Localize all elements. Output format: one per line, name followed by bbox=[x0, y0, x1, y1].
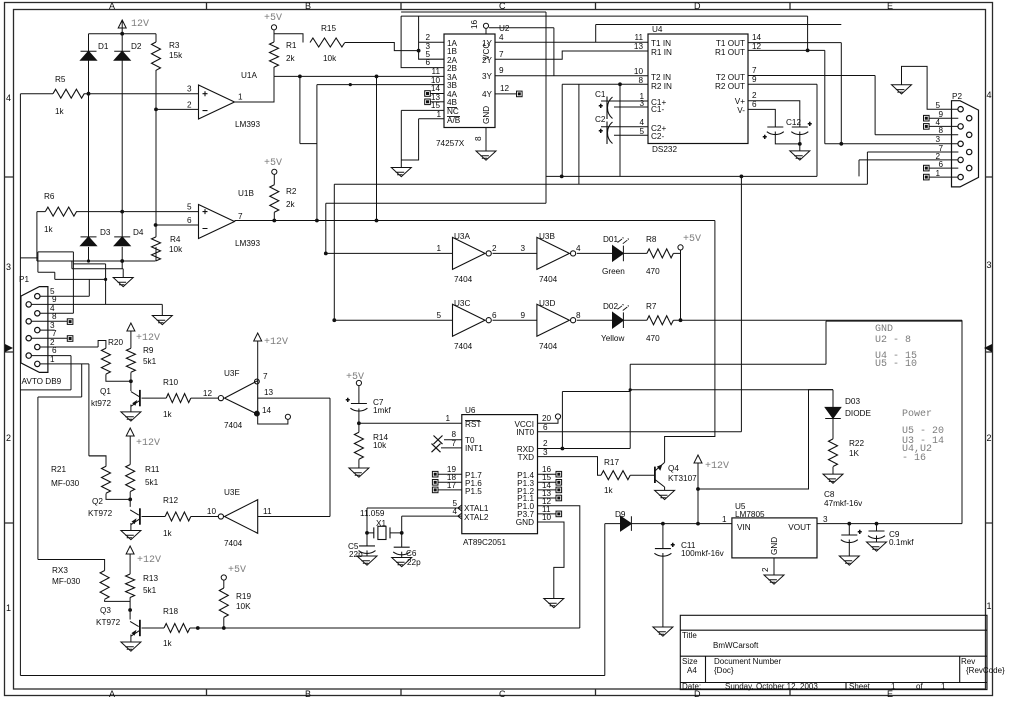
wire INT1 stub bbox=[441, 447, 462, 449]
svg-text:VIN: VIN bbox=[737, 523, 751, 532]
wire U2 pin16 stub bbox=[485, 23, 487, 35]
svg-text:5k1: 5k1 bbox=[143, 586, 157, 595]
svg-text:9: 9 bbox=[52, 295, 57, 304]
wire +12V stem Q1 bbox=[130, 331, 132, 348]
svg-text:R7: R7 bbox=[646, 302, 657, 311]
ground C11 bbox=[653, 627, 673, 636]
svg-text:R1 OUT: R1 OUT bbox=[715, 48, 745, 57]
wire Q4 collector gnd bbox=[664, 487, 666, 490]
+5V terminal R1 bbox=[271, 25, 276, 30]
svg-text:P1.5: P1.5 bbox=[465, 487, 482, 496]
svg-text:D: D bbox=[694, 1, 701, 11]
square U6 P1.1 bbox=[556, 495, 562, 501]
svg-text:C: C bbox=[499, 1, 506, 11]
svg-text:P2: P2 bbox=[952, 92, 962, 101]
resistor R21 bbox=[102, 466, 111, 493]
wire U4 V- to cap bbox=[748, 109, 775, 127]
svg-text:3: 3 bbox=[935, 135, 940, 144]
terminal U2 pin16 bbox=[483, 23, 488, 28]
svg-text:5: 5 bbox=[639, 127, 644, 136]
wire y391.5 line bbox=[562, 392, 630, 449]
wire U3C out to U3D bbox=[493, 319, 537, 321]
wire P1 pin9 gnd drop bbox=[161, 304, 163, 315]
svg-text:Green: Green bbox=[602, 267, 625, 276]
wire U4 R2IN row bbox=[562, 84, 648, 184]
svg-text:NC: NC bbox=[447, 107, 459, 116]
wire U1A pin2 row bbox=[156, 108, 199, 110]
resistor R3 bbox=[152, 42, 161, 70]
svg-text:R21: R21 bbox=[51, 465, 66, 474]
wire U2 pin8 stub bbox=[485, 128, 487, 152]
wire T0 stub bbox=[444, 439, 462, 441]
svg-text:8: 8 bbox=[576, 311, 581, 320]
square U6 P1.7 bbox=[432, 471, 438, 477]
svg-text:A/B: A/B bbox=[447, 116, 461, 125]
wire C9 stem bbox=[876, 524, 878, 542]
svg-text:9: 9 bbox=[752, 75, 757, 84]
svg-text:D9: D9 bbox=[615, 510, 626, 519]
wire D9 row bbox=[605, 523, 732, 525]
capacitor C12 bbox=[791, 127, 808, 135]
wire Q4 emitter route bbox=[665, 221, 715, 463]
svg-text:5: 5 bbox=[436, 311, 441, 320]
+12V arrow top bbox=[118, 20, 126, 28]
svg-text:5k1: 5k1 bbox=[143, 357, 157, 366]
wire Q1 junction row bbox=[106, 348, 131, 391]
svg-text:VCC: VCC bbox=[482, 43, 491, 60]
wire R2 column bbox=[273, 174, 275, 220]
wire Q2 junction bbox=[106, 436, 130, 507]
square P2 pin6 bbox=[924, 165, 930, 171]
wire P1.4-P1.1 stubs bbox=[538, 474, 557, 498]
svg-text:3Y: 3Y bbox=[482, 72, 493, 81]
svg-text:470: 470 bbox=[646, 334, 660, 343]
svg-text:R12: R12 bbox=[163, 496, 178, 505]
svg-text:R11: R11 bbox=[145, 465, 160, 474]
svg-text:R10: R10 bbox=[163, 378, 178, 387]
svg-text:20: 20 bbox=[542, 414, 552, 423]
svg-text:10k: 10k bbox=[323, 54, 337, 63]
wire D02 to R7 bbox=[623, 319, 647, 321]
wire h27.8 stub bbox=[489, 28, 554, 76]
svg-text:+12V: +12V bbox=[136, 333, 160, 344]
wire U4 R2OUT bbox=[748, 84, 817, 176]
wire D9 left drop bbox=[604, 524, 606, 676]
svg-text:GND: GND bbox=[770, 537, 779, 555]
svg-text:U5 - 10: U5 - 10 bbox=[875, 359, 917, 370]
resistor R5 bbox=[53, 89, 84, 98]
svg-text:Yellow: Yellow bbox=[601, 334, 624, 343]
svg-text:12: 12 bbox=[500, 84, 510, 93]
svg-text:8: 8 bbox=[938, 126, 943, 135]
svg-text:9: 9 bbox=[499, 66, 504, 75]
wire U4 C2- stub bbox=[614, 134, 648, 136]
wire P1.0 elbow bbox=[538, 506, 580, 628]
wire riser x376.5 bbox=[376, 76, 378, 220]
svg-text:INT1: INT1 bbox=[465, 444, 483, 453]
resistor R12 bbox=[165, 512, 191, 521]
resistor R9 bbox=[126, 348, 135, 372]
wire Q3 emitter drop bbox=[130, 635, 132, 643]
svg-text:10: 10 bbox=[207, 507, 217, 516]
wire XTAL2 row bbox=[402, 516, 462, 547]
wire U2 3Y/T2IN row bbox=[495, 75, 648, 77]
wire U1B pin6 row bbox=[156, 224, 199, 226]
wire U1B output rail y220.5 bbox=[235, 220, 715, 222]
svg-text:+: + bbox=[599, 104, 603, 110]
wire U3E out riser bbox=[258, 398, 330, 516]
svg-text:2: 2 bbox=[6, 433, 11, 443]
wire U4 C1+ stub bbox=[601, 100, 648, 102]
wire R19 column bbox=[223, 580, 225, 628]
wire R8 to +5V term bbox=[673, 250, 680, 253]
svg-text:R9: R9 bbox=[143, 346, 154, 355]
wire U3D out to D02 bbox=[577, 319, 613, 321]
IC U5 LM7805 box bbox=[732, 518, 817, 558]
wire U3F pin13 out bbox=[258, 397, 330, 399]
resistor R11 bbox=[126, 465, 135, 492]
resistor R8 bbox=[647, 249, 674, 258]
svg-text:10K: 10K bbox=[236, 602, 251, 611]
wire bottom bus y268.8 bbox=[72, 261, 123, 269]
wire P2 pin5 gnd bbox=[902, 66, 959, 109]
square P2 pin1 bbox=[924, 174, 930, 180]
wire U4 R1OUT bbox=[748, 50, 825, 143]
svg-text:R17: R17 bbox=[604, 458, 619, 467]
wire Q3 base R18 bbox=[142, 627, 580, 629]
wire +12V Q4 stem bbox=[697, 463, 699, 524]
diode D03 (down) bbox=[825, 407, 841, 418]
svg-text:1: 1 bbox=[436, 244, 441, 253]
svg-text:+5V: +5V bbox=[264, 158, 282, 169]
svg-text:6: 6 bbox=[425, 58, 430, 67]
wire P1 pin1 to R21 bbox=[89, 364, 106, 466]
svg-text:U3C: U3C bbox=[454, 299, 470, 308]
svg-text:7: 7 bbox=[499, 50, 504, 59]
inverter U3A bbox=[453, 237, 486, 269]
svg-text:Q4: Q4 bbox=[668, 464, 679, 473]
wire U1B pin5 row (R6) bbox=[37, 211, 199, 213]
svg-text:22p: 22p bbox=[407, 558, 421, 567]
svg-text:D02: D02 bbox=[603, 302, 618, 311]
svg-text:+12V: +12V bbox=[264, 337, 288, 348]
resistor R2 bbox=[270, 185, 279, 213]
svg-text:11: 11 bbox=[432, 67, 441, 76]
wire XTAL1 row bbox=[367, 508, 462, 546]
svg-text:2: 2 bbox=[543, 439, 548, 448]
svg-text:1k: 1k bbox=[55, 107, 65, 116]
wire R3-R4 column bbox=[155, 34, 157, 261]
wire P2 pin7 riser bbox=[867, 152, 958, 184]
svg-text:3: 3 bbox=[823, 515, 828, 524]
wire U3A input row bbox=[326, 252, 453, 254]
wire U4 C2+ stub bbox=[601, 126, 648, 128]
svg-text:3B: 3B bbox=[447, 81, 458, 90]
svg-text:7404: 7404 bbox=[539, 342, 558, 351]
svg-text:KT3107: KT3107 bbox=[668, 474, 697, 483]
wire U3F pin7 to +12V bbox=[257, 341, 259, 381]
svg-text:R2 IN: R2 IN bbox=[651, 82, 672, 91]
square P2 pin9 bbox=[924, 115, 930, 121]
svg-text:+: + bbox=[671, 543, 675, 549]
svg-text:U3D: U3D bbox=[539, 299, 555, 308]
svg-text:1: 1 bbox=[935, 169, 940, 178]
wire R21 top jog bbox=[89, 456, 106, 466]
+5V terminal R19 bbox=[221, 575, 226, 580]
svg-text:R20: R20 bbox=[108, 338, 123, 347]
svg-text:T1 IN: T1 IN bbox=[651, 39, 671, 48]
svg-text:2: 2 bbox=[425, 33, 430, 42]
wire riser x316.7 / 3B loop bbox=[300, 76, 317, 220]
terminal U3F pin14 bbox=[285, 414, 290, 419]
svg-text:7: 7 bbox=[52, 329, 57, 338]
svg-text:LM393: LM393 bbox=[235, 239, 260, 248]
wire P1 staircase bbox=[20, 252, 105, 313]
svg-text:1: 1 bbox=[445, 414, 450, 423]
svg-text:LM393: LM393 bbox=[235, 120, 260, 129]
svg-text:+: + bbox=[808, 122, 812, 128]
wire U2 1Y/T1IN row bbox=[495, 41, 648, 43]
svg-text:+12V: +12V bbox=[136, 438, 160, 449]
wire U3B out to D01 bbox=[577, 252, 613, 254]
svg-text:1mkf: 1mkf bbox=[373, 406, 391, 415]
wire riser x562.2 R2IN bbox=[561, 84, 563, 176]
svg-text:3: 3 bbox=[543, 448, 548, 457]
wire P1.7 stub bbox=[438, 473, 462, 475]
svg-text:1: 1 bbox=[987, 601, 992, 611]
wire U2 A/B stub bbox=[401, 119, 444, 160]
wire +12V to D03 bbox=[698, 390, 833, 489]
svg-text:R6: R6 bbox=[44, 192, 55, 201]
svg-text:+12V: +12V bbox=[137, 555, 161, 566]
svg-text:U2: U2 bbox=[499, 24, 510, 33]
svg-text:E: E bbox=[887, 1, 893, 11]
svg-text:MF-030: MF-030 bbox=[52, 577, 81, 586]
svg-text:10k: 10k bbox=[373, 441, 387, 450]
wire Q3 junction bbox=[105, 554, 131, 620]
svg-text:13: 13 bbox=[264, 388, 274, 397]
square U6 P1.5 bbox=[432, 487, 438, 493]
svg-text:U3B: U3B bbox=[539, 232, 555, 241]
square U6 P3.7 bbox=[556, 511, 562, 517]
wire +12V rail top bbox=[89, 33, 157, 35]
svg-text:7404: 7404 bbox=[454, 342, 473, 351]
svg-text:10: 10 bbox=[634, 67, 644, 76]
svg-text:1k: 1k bbox=[604, 486, 614, 495]
ground C12 bbox=[790, 151, 810, 160]
svg-text:R2 OUT: R2 OUT bbox=[715, 82, 745, 91]
wire U2 4Y stub bbox=[495, 93, 517, 95]
ground Q3 bbox=[121, 642, 141, 651]
IC U4 DS232 box bbox=[648, 34, 748, 144]
wire C11 stem bbox=[662, 524, 664, 627]
capacitor C2 bbox=[607, 122, 613, 145]
square U2 4A bbox=[425, 91, 431, 97]
svg-text:6: 6 bbox=[52, 346, 57, 355]
svg-text:P1: P1 bbox=[19, 275, 29, 284]
svg-text:C1: C1 bbox=[595, 90, 606, 99]
svg-text:INT0: INT0 bbox=[516, 428, 534, 437]
wire P1 pin2 to R20 bbox=[98, 341, 106, 349]
inverter U3F (points left) bbox=[225, 381, 258, 415]
svg-text:4: 4 bbox=[576, 244, 581, 253]
resistor R15 bbox=[310, 38, 345, 47]
ground below D column bbox=[113, 278, 133, 287]
+5V terminal C7 bbox=[356, 380, 361, 385]
svg-text:4: 4 bbox=[499, 33, 504, 42]
overline NC bbox=[447, 107, 457, 109]
wire gnd stem D column bbox=[122, 269, 124, 278]
svg-text:of: of bbox=[916, 682, 923, 691]
svg-text:1k: 1k bbox=[163, 639, 173, 648]
capacitor C7 bbox=[350, 404, 367, 412]
transistor Q3 bbox=[139, 620, 141, 636]
capacitor C6 bbox=[393, 547, 410, 555]
ground U5 pin2 bbox=[764, 575, 784, 584]
svg-text:U1B: U1B bbox=[238, 189, 254, 198]
wire top rail y12 bbox=[401, 11, 546, 13]
wire C5 gnd stem bbox=[366, 550, 368, 556]
svg-text:R5: R5 bbox=[55, 75, 66, 84]
svg-text:R1 IN: R1 IN bbox=[651, 48, 672, 57]
svg-text:kt972: kt972 bbox=[91, 399, 111, 408]
svg-text:D4: D4 bbox=[133, 228, 144, 237]
svg-text:Date:: Date: bbox=[682, 682, 701, 691]
svg-text:TXD: TXD bbox=[518, 453, 534, 462]
svg-text:R15: R15 bbox=[321, 24, 336, 33]
svg-text:+: + bbox=[599, 129, 603, 135]
ground C9 bbox=[867, 542, 887, 551]
transistor Q4 (PNP) bbox=[654, 467, 656, 483]
op-amp U1A bbox=[199, 85, 235, 119]
svg-text:- 16: - 16 bbox=[902, 453, 926, 464]
wire riser x741.4 INT0 bbox=[538, 176, 742, 431]
LED D02 bbox=[613, 312, 624, 328]
wire rail y203.2 to U3A bbox=[326, 203, 546, 253]
wire +5V return y364.2 bbox=[630, 321, 962, 364]
svg-text:47mkf-16v: 47mkf-16v bbox=[824, 499, 863, 508]
wire R1 rail y76.4 to U2 3A bbox=[274, 67, 444, 76]
resistor RX3 bbox=[100, 571, 109, 600]
wire P2 pin3 row bbox=[825, 143, 958, 145]
svg-text:B: B bbox=[305, 1, 311, 11]
svg-text:1: 1 bbox=[941, 682, 946, 691]
svg-text:Size: Size bbox=[682, 657, 698, 666]
wire riser x630 to RXD bbox=[629, 364, 631, 448]
svg-text:2k: 2k bbox=[286, 200, 296, 209]
X mark T0 bbox=[434, 436, 443, 445]
svg-text:C8: C8 bbox=[824, 490, 835, 499]
diode D4 bbox=[114, 237, 130, 246]
svg-text:RST: RST bbox=[465, 420, 481, 429]
svg-text:100mkf-16v: 100mkf-16v bbox=[681, 549, 725, 558]
svg-text:1: 1 bbox=[6, 603, 11, 613]
wire bottom bus y261 bbox=[37, 251, 156, 261]
svg-text:D3: D3 bbox=[100, 228, 111, 237]
svg-text:C2-: C2- bbox=[651, 132, 664, 141]
svg-text:1K: 1K bbox=[849, 449, 860, 458]
svg-text:2B: 2B bbox=[447, 64, 458, 73]
svg-text:LM7805: LM7805 bbox=[735, 510, 765, 519]
svg-text:3: 3 bbox=[520, 244, 525, 253]
svg-text:RX3: RX3 bbox=[52, 566, 68, 575]
resistor R10 bbox=[166, 394, 191, 403]
svg-text:R1: R1 bbox=[286, 41, 297, 50]
square P1 pin7 bbox=[67, 336, 73, 342]
svg-text:2k: 2k bbox=[286, 54, 296, 63]
wire U6 GND route bbox=[538, 522, 565, 599]
svg-text:R13: R13 bbox=[143, 574, 158, 583]
overline RST bbox=[465, 420, 480, 422]
svg-text:2: 2 bbox=[987, 433, 992, 443]
svg-text:1: 1 bbox=[436, 110, 441, 119]
svg-text:Q2: Q2 bbox=[92, 497, 103, 506]
svg-text:MF-030: MF-030 bbox=[51, 479, 80, 488]
svg-text:5: 5 bbox=[187, 203, 192, 212]
diode D3 bbox=[81, 237, 97, 246]
svg-text:22p: 22p bbox=[349, 550, 363, 559]
svg-text:14: 14 bbox=[752, 33, 762, 42]
svg-text:4: 4 bbox=[987, 90, 992, 100]
wire D1 column bbox=[88, 34, 90, 261]
svg-text:1: 1 bbox=[722, 515, 727, 524]
wire U4 T1IN/R1IN left stubs bbox=[595, 41, 597, 43]
svg-text:4: 4 bbox=[639, 118, 644, 127]
svg-text:+5V: +5V bbox=[683, 234, 701, 245]
svg-text:3: 3 bbox=[639, 99, 644, 108]
svg-text:6: 6 bbox=[543, 423, 548, 432]
svg-text:B: B bbox=[305, 689, 311, 699]
svg-text:R22: R22 bbox=[849, 439, 864, 448]
svg-text:Sheet: Sheet bbox=[849, 682, 871, 691]
wire rail y24.5 T1 loop bbox=[596, 25, 842, 43]
svg-text:A4: A4 bbox=[687, 666, 697, 675]
svg-text:7404: 7404 bbox=[454, 275, 473, 284]
svg-text:DIODE: DIODE bbox=[845, 409, 871, 418]
svg-text:10: 10 bbox=[542, 513, 552, 522]
+12V arrow Q2 bbox=[126, 428, 134, 436]
resistor R19 bbox=[219, 588, 228, 617]
svg-text:D01: D01 bbox=[603, 235, 618, 244]
svg-text:74257X: 74257X bbox=[436, 139, 465, 148]
wire y389.8 line to D03 bbox=[630, 389, 833, 391]
svg-text:GND: GND bbox=[516, 518, 534, 527]
resistor R20 bbox=[101, 348, 110, 374]
svg-text:BmWCarsoft: BmWCarsoft bbox=[713, 641, 759, 650]
svg-text:U2 - 8: U2 - 8 bbox=[875, 335, 911, 346]
terminal U6 VCCI bbox=[555, 414, 560, 419]
wire v546 bbox=[545, 12, 547, 203]
svg-text:13: 13 bbox=[634, 42, 644, 51]
svg-text:{Doc}: {Doc} bbox=[714, 666, 734, 675]
inverter U3B bbox=[537, 237, 570, 269]
svg-text:+5V: +5V bbox=[264, 13, 282, 24]
svg-text:R18: R18 bbox=[163, 607, 178, 616]
svg-text:1B: 1B bbox=[447, 47, 458, 56]
resistor R17 bbox=[601, 471, 630, 480]
square P1 pin8 bbox=[67, 319, 73, 325]
ground C5 bbox=[357, 556, 377, 565]
clock marks XTAL bbox=[458, 505, 462, 519]
wire D03 to R22 bbox=[832, 419, 834, 475]
wire R15 right jog to U2 1B bbox=[345, 43, 419, 51]
resistor R4 bbox=[152, 237, 161, 261]
ground P1 pin9 bbox=[152, 316, 172, 325]
wire +5V big loop bbox=[826, 320, 962, 523]
capacitor C5 bbox=[359, 546, 376, 554]
svg-text:T1 OUT: T1 OUT bbox=[716, 39, 745, 48]
svg-text:3: 3 bbox=[6, 262, 11, 272]
